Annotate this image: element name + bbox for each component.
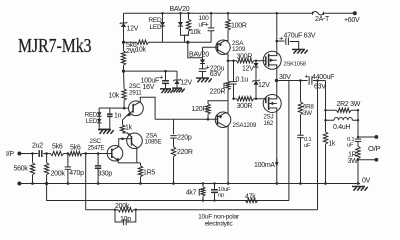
svg-text:4400uF: 4400uF <box>312 74 334 81</box>
LED D8 RED <box>97 108 102 118</box>
label BAV20 top <box>170 6 190 13</box>
resistor 10k vertical top <box>185 13 191 42</box>
capacitor 4400uF 63V <box>309 76 325 84</box>
svg-text:470p: 470p <box>69 170 84 177</box>
capacitor 330p <box>95 154 101 184</box>
label 12V D5 <box>242 65 254 72</box>
resistor 1k cascode <box>120 125 124 133</box>
svg-text:LED: LED <box>150 24 163 31</box>
preset 4k7 <box>199 183 205 200</box>
wire cap to LR block <box>325 81 327 111</box>
label 4400uF <box>305 71 335 81</box>
wire cascode base <box>99 107 129 109</box>
svg-text:30V: 30V <box>279 74 291 81</box>
node +60V terminal <box>353 11 357 15</box>
svg-text:3W: 3W <box>303 110 312 117</box>
svg-text:63V: 63V <box>314 83 326 90</box>
svg-text:10k: 10k <box>190 29 201 36</box>
wire top gate line <box>228 60 237 62</box>
svg-text:2A-T: 2A-T <box>315 16 330 23</box>
resistor 100R <box>226 13 230 38</box>
mosfet Q5 2SK1058 <box>263 13 281 69</box>
diode D4 BAV20 <box>200 58 205 66</box>
node OP plus <box>375 135 379 139</box>
wire output sense drop <box>288 81 290 201</box>
wire vas base line <box>155 118 210 120</box>
svg-text:2R2 3W: 2R2 3W <box>337 101 361 108</box>
wire K source to 30V node <box>276 69 278 81</box>
svg-text:np: np <box>218 193 225 199</box>
svg-text:2u2: 2u2 <box>32 143 43 150</box>
node junctions rail bottom <box>31 182 359 185</box>
svg-text:0.4uH: 0.4uH <box>333 124 351 131</box>
capacitor 470p <box>65 154 71 184</box>
label 10k mid <box>109 93 120 100</box>
wire base stub <box>202 47 204 58</box>
label 5k6 input2 <box>70 145 81 152</box>
resistor 5k6 input1 <box>51 151 69 155</box>
label 2SK1058 <box>284 61 307 67</box>
svg-text:0V: 0V <box>362 177 371 184</box>
label 10k vertical top <box>190 29 201 36</box>
transistor Q7 2SA1209 <box>210 101 231 184</box>
svg-text:120R: 120R <box>192 106 208 113</box>
svg-text:220R: 220R <box>177 149 193 156</box>
label 2SA 1209 Q4 <box>232 40 246 53</box>
svg-text:10p: 10p <box>120 216 131 223</box>
resistor 5k6 input2 <box>69 151 108 155</box>
resistor 5k6 2W <box>121 42 125 65</box>
wire 30V line <box>277 80 308 82</box>
svg-text:I/P: I/P <box>6 151 14 158</box>
label +60V <box>344 17 360 24</box>
capacitor 220p <box>170 119 176 147</box>
title MJR7-Mk3 <box>18 35 92 57</box>
resistor 300R top <box>237 59 264 63</box>
ground under LED block <box>98 130 114 134</box>
svg-text:16V: 16V <box>143 84 155 91</box>
wire to OP plus <box>358 136 376 138</box>
arrow 100mA <box>275 158 279 167</box>
svg-text:LED: LED <box>86 118 98 125</box>
label 10k horizontal <box>135 46 146 53</box>
capacitor 10p loop <box>115 210 136 226</box>
label RED LED block <box>85 111 98 124</box>
label 4k7 <box>186 190 197 197</box>
svg-text:1209: 1209 <box>232 46 246 53</box>
wire fuse to +60V <box>324 12 355 14</box>
node OP minus <box>375 158 379 162</box>
label 120R <box>192 106 208 113</box>
fuse F1 2A-T <box>313 12 324 15</box>
LED D9 RED <box>97 118 102 130</box>
label 12V zener D1 <box>127 25 139 32</box>
transistor Q1 2SC2547E <box>107 139 127 163</box>
wire output node down <box>357 120 359 137</box>
label I/P <box>6 151 14 158</box>
resistor 6R8 3W <box>298 81 302 115</box>
label 200k vertical <box>51 171 66 178</box>
label 560k <box>14 165 29 172</box>
wire input line <box>19 153 38 155</box>
svg-text:220R: 220R <box>210 89 226 96</box>
label 220u 63V <box>205 62 224 77</box>
capacitor 220u 63V <box>199 66 207 78</box>
label 100mA <box>254 162 275 169</box>
transistor Q3 2SC2911 <box>123 97 156 125</box>
svg-text:300R: 300R <box>237 53 253 60</box>
wire left rail drop <box>123 13 125 20</box>
transistor Q4 2SA1209 <box>203 38 231 61</box>
resistor 2R2 3W <box>326 108 359 112</box>
preset 220R <box>224 61 230 113</box>
wire 5k6 node to mid <box>123 65 125 71</box>
svg-text:1k: 1k <box>125 124 133 131</box>
label 47k <box>245 194 256 201</box>
svg-text:2SK1058: 2SK1058 <box>284 61 307 67</box>
label 220p <box>177 134 192 141</box>
label 2SJ 162 <box>264 114 274 127</box>
label 2SC 2547E <box>88 138 105 151</box>
label 1R5 <box>143 169 155 176</box>
ground under 470uF <box>292 49 308 53</box>
wire feedback tap <box>317 81 319 210</box>
svg-text:+60V: +60V <box>344 17 360 24</box>
capacitor 10uF np <box>211 183 218 200</box>
label 2SA 1085E <box>145 132 162 145</box>
label 10uF note <box>198 214 240 228</box>
svg-text:0.1u: 0.1u <box>236 76 249 83</box>
resistor 1R5 <box>138 163 142 184</box>
label 2A-T <box>315 16 330 23</box>
svg-text:5k6: 5k6 <box>52 143 63 150</box>
svg-text:560k: 560k <box>14 165 29 172</box>
svg-text:O/P: O/P <box>368 144 380 153</box>
label 220R preset <box>210 89 226 96</box>
mosfet Q6 2SJ162 <box>263 81 281 113</box>
capacitor 100uF 16V <box>162 71 169 88</box>
wire J drain down 100mA <box>276 112 278 184</box>
svg-text:2SA1209: 2SA1209 <box>233 122 257 129</box>
svg-text:electrolytic: electrolytic <box>205 220 234 227</box>
svg-text:2911: 2911 <box>129 89 142 96</box>
label BAV20 second <box>189 51 209 58</box>
svg-text:1n: 1n <box>114 112 122 119</box>
svg-text:RED: RED <box>148 17 162 24</box>
label O/P <box>368 144 380 153</box>
wire +60V top rail <box>124 12 313 14</box>
label 300R top <box>237 53 253 60</box>
label 6R8 3W <box>303 103 314 116</box>
LED D2 RED <box>160 13 165 42</box>
label 0.1uF zobel1 <box>304 137 311 149</box>
label 0.4uH <box>333 124 351 131</box>
svg-text:12V: 12V <box>180 80 192 87</box>
label 330p <box>98 170 113 177</box>
ground under zener D7 <box>172 88 185 92</box>
label 5k6 2W <box>126 42 137 55</box>
svg-text:1k: 1k <box>328 140 336 147</box>
capacitor 1n <box>107 108 113 129</box>
wire zener to node A <box>123 29 125 42</box>
svg-text:uF: uF <box>304 143 311 149</box>
svg-text:162: 162 <box>264 120 274 127</box>
svg-text:100R: 100R <box>231 22 247 29</box>
svg-text:10k: 10k <box>109 93 120 100</box>
svg-text:220p: 220p <box>177 134 192 141</box>
capacitor 470uF 63V <box>277 38 299 49</box>
wire led block bottom <box>99 128 110 130</box>
inductor 0.4uH <box>326 110 359 120</box>
node input ground <box>17 181 21 185</box>
label 200k feedback <box>115 203 130 210</box>
label 2SC 2911 <box>129 83 142 96</box>
label 0.1u gate <box>236 76 249 83</box>
node input <box>17 152 21 156</box>
svg-text:10k: 10k <box>135 46 146 53</box>
resistor 220R <box>171 147 175 184</box>
label 100uF 16V <box>141 73 165 91</box>
label 12V D7 <box>180 80 192 87</box>
label 220R <box>177 149 193 156</box>
wire 0V rail <box>19 182 360 184</box>
zener D5 12V gate <box>253 61 258 69</box>
label RED LED D2 <box>148 17 162 31</box>
label 12V D6 <box>258 82 270 89</box>
label 0V <box>362 177 371 184</box>
resistor 10k horizontal <box>124 40 212 44</box>
resistor 300R bottom <box>237 97 265 101</box>
node C <box>122 70 125 73</box>
capacitor 0.1uF zobel2 <box>355 137 361 146</box>
node junctions top rail <box>161 12 278 14</box>
label 10p <box>120 216 131 223</box>
capacitor 0.1uF zobel1 <box>297 115 303 184</box>
wire mid horizontal <box>124 70 178 72</box>
label 470p <box>69 170 84 177</box>
resistor 1k output <box>323 120 327 183</box>
svg-text:12V: 12V <box>127 25 139 32</box>
svg-text:BAV20: BAV20 <box>170 6 190 13</box>
label 2SA1209 Q7 <box>233 122 257 129</box>
label 5k6 input1 <box>52 143 63 150</box>
zener D7 12V <box>173 71 181 88</box>
ground under 220u <box>196 78 212 82</box>
svg-text:12V: 12V <box>258 82 270 89</box>
resistor 47k <box>246 198 258 202</box>
svg-text:5k6: 5k6 <box>70 145 81 152</box>
wire bottom gate line <box>234 98 237 100</box>
svg-text:330p: 330p <box>98 170 113 177</box>
svg-text:200k: 200k <box>51 171 66 178</box>
node junctions misc <box>114 40 359 211</box>
node junctions input line <box>31 152 99 155</box>
label 470uF 63V <box>279 32 316 42</box>
diode D3 BAV20 <box>178 13 189 35</box>
transistor Q2 2SA1085E <box>123 133 143 163</box>
resistor 560k <box>30 154 34 184</box>
ground 0V <box>352 186 368 190</box>
svg-text:4k7: 4k7 <box>186 190 197 197</box>
resistor 10k mid <box>122 71 126 108</box>
label 1k output <box>328 140 336 147</box>
svg-text:1R5: 1R5 <box>143 169 155 176</box>
svg-text:300R: 300R <box>237 103 253 110</box>
resistor 1R 3W <box>356 146 360 183</box>
svg-text:3W: 3W <box>348 158 359 165</box>
label 1k cascode <box>125 124 133 131</box>
label 300R bottom <box>237 103 253 110</box>
resistor 200k vertical <box>44 154 48 184</box>
label 100uF top <box>198 15 209 28</box>
capacitor 2u2 <box>39 150 50 157</box>
label 1R 3W <box>348 151 359 165</box>
ground under 100uF 16V <box>160 89 174 93</box>
wire line A <box>47 183 289 200</box>
svg-text:BAV20: BAV20 <box>189 51 209 58</box>
capacitor 100uF top <box>208 13 215 42</box>
svg-text:200k: 200k <box>115 203 130 210</box>
label 1n <box>114 112 122 119</box>
svg-text:MJR7-Mk3: MJR7-Mk3 <box>18 35 92 57</box>
zener D6 12V gate <box>252 69 260 99</box>
label 0.1uF zobel2 <box>347 137 354 149</box>
svg-text:2547E: 2547E <box>88 144 105 151</box>
label 2u2 <box>32 143 43 150</box>
node B <box>186 41 189 44</box>
capacitor 0.1u gate <box>230 61 236 99</box>
wire line B <box>86 209 318 211</box>
svg-text:12V: 12V <box>242 65 254 72</box>
zener D1 12V <box>120 20 128 29</box>
label 100R <box>231 22 247 29</box>
resistor 120R <box>206 101 228 120</box>
label 10uF np <box>218 187 231 199</box>
resistor 200k feedback <box>118 208 134 212</box>
wire base feedback drop <box>85 154 87 210</box>
label 30V <box>279 74 291 81</box>
svg-text:47k: 47k <box>245 194 256 201</box>
label 2R2 3W <box>337 101 361 108</box>
svg-text:470uF 63V: 470uF 63V <box>284 32 316 39</box>
wire node B down <box>188 42 203 58</box>
svg-text:63V: 63V <box>210 71 222 78</box>
svg-text:100mA: 100mA <box>254 162 275 169</box>
node rail-lineA <box>45 182 48 185</box>
wire to OP minus <box>358 159 376 161</box>
label 63V 4400uF <box>314 83 326 90</box>
node A <box>122 41 125 44</box>
svg-text:uF: uF <box>347 142 354 148</box>
node 30V <box>275 79 278 82</box>
svg-text:1085E: 1085E <box>145 139 162 146</box>
wire emitter line <box>118 162 140 164</box>
